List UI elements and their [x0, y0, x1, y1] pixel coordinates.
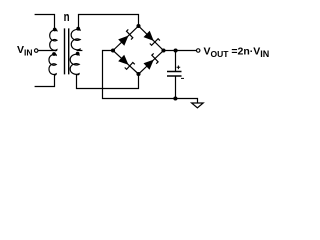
bridge diamond edges — [113, 26, 164, 74]
capacitor minus sign — [181, 77, 184, 79]
wire VIN to primary center tap — [38, 50, 55, 52]
node primary top phase dot — [53, 28, 57, 32]
node capacitor bottom tap — [173, 96, 177, 100]
wire secondary center tap stub — [77, 50, 83, 52]
wire bridge right corner to output terminal — [164, 50, 197, 52]
transformer secondary lower winding — [70, 54, 79, 75]
node primary center tap phase dot — [52, 52, 56, 56]
node bridge right junction — [161, 48, 165, 52]
ground symbol — [192, 103, 204, 108]
wire secondary bottom to bridge bottom — [77, 74, 139, 89]
wire primary top stub — [35, 15, 55, 30]
transformer primary lower winding — [49, 54, 56, 75]
svg-text:n: n — [64, 11, 70, 24]
wire bridge left corner to ground rail — [103, 51, 198, 104]
wire secondary top lead to top rail — [79, 15, 139, 29]
diode D3 lower-left (anode left corner, cathode bottom corner) — [118, 55, 135, 70]
transformer secondary upper winding — [71, 29, 80, 50]
diode D4 lower-right (anode bottom corner, cathode right corner) — [144, 53, 159, 69]
transformer core lines — [65, 28, 69, 74]
node bridge top junction — [136, 24, 140, 28]
diode D2 upper-right (anode top corner, cathode right corner) — [144, 31, 160, 46]
node bridge left junction — [111, 48, 115, 52]
node bridge bottom junction — [136, 72, 140, 76]
svg-text:VOUT =2n·VIN: VOUT =2n·VIN — [204, 46, 270, 60]
wire capacitor bottom lead — [175, 76, 177, 99]
node capacitor top tap — [174, 48, 178, 52]
terminal VOUT output circle — [196, 49, 200, 53]
wire capacitor top lead — [175, 51, 177, 72]
node secondary top phase dot — [76, 27, 80, 31]
capacitor C1 plates — [167, 72, 182, 77]
svg-text:VIN: VIN — [17, 44, 33, 58]
terminal VIN input circle — [34, 49, 38, 53]
capacitor plus sign — [177, 66, 181, 70]
transformer primary upper winding — [50, 30, 57, 51]
node secondary center tap phase dot — [76, 52, 80, 56]
wire primary bottom stub — [35, 75, 55, 87]
diode D1 upper-left (anode left corner, cathode top corner) — [118, 29, 133, 45]
